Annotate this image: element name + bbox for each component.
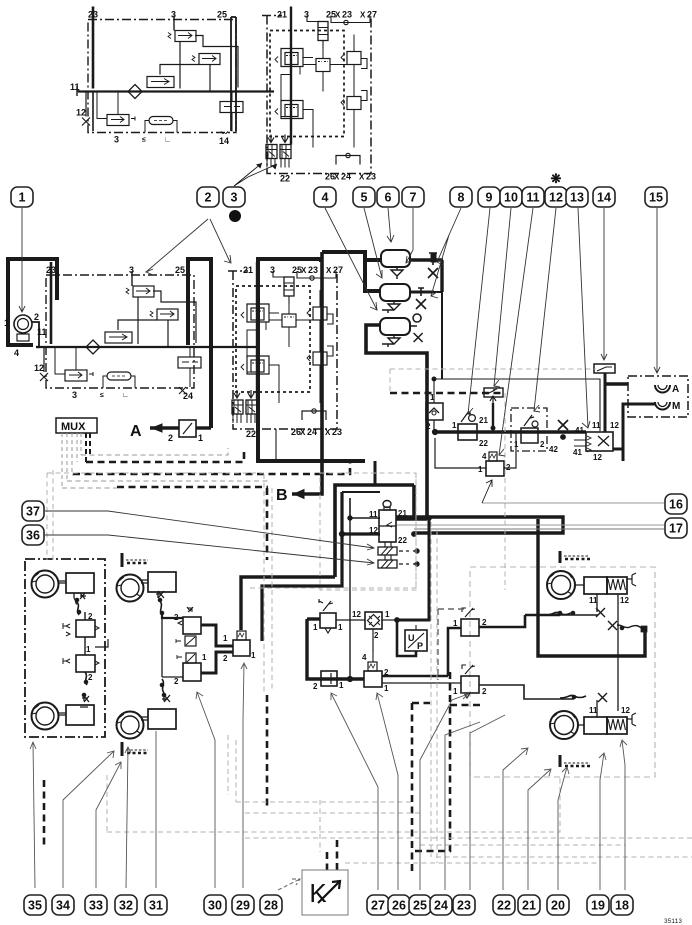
spring brake chamber top: [575, 573, 636, 594]
leader 9: [468, 208, 490, 415]
callout 26: [388, 895, 410, 915]
grey web verticals: [438, 609, 465, 680]
callout 31: [145, 895, 167, 915]
callout 36: [22, 525, 44, 545]
svg-text:1: 1: [4, 318, 9, 328]
line 11 thin: [350, 498, 380, 518]
svg-text:1: 1: [86, 645, 91, 654]
svg-text:21: 21: [243, 265, 253, 275]
svg-text:1: 1: [313, 623, 318, 632]
main supply section (core, reused for top-left inset): [34, 262, 232, 401]
svg-text:1: 1: [452, 421, 457, 430]
svg-text:❋: ❋: [551, 171, 562, 186]
hand brake main line: [435, 430, 586, 433]
svg-text:41: 41: [575, 426, 584, 435]
trailer/dryer section (core, reused for top-right inset): [228, 262, 343, 439]
callout 1: [11, 187, 33, 207]
svg-text:A: A: [130, 423, 142, 440]
MUX harness drops: [62, 433, 81, 488]
callout 16: [665, 494, 687, 514]
callout 9: [478, 187, 500, 207]
right lower valve assembly: [307, 346, 333, 403]
u-link with circle bottom: [302, 411, 326, 420]
svg-text:15: 15: [649, 191, 663, 205]
svg-text:42: 42: [549, 445, 558, 454]
left upper valve assembly: [241, 304, 269, 330]
wire 21 vertical: [256, 262, 258, 400]
svg-text:9: 9: [486, 191, 493, 205]
stub 12 with X: [40, 347, 48, 381]
sensor comb top: [560, 551, 590, 563]
inset label patch 14: [216, 134, 238, 146]
X 24 mark: [179, 387, 186, 394]
A/M coupling heads box: [628, 376, 688, 417]
svg-text:24: 24: [434, 899, 448, 913]
inset arrows pointing to solenoids (callout 2/3 leaders): [234, 163, 277, 186]
callout 4: [314, 187, 336, 207]
svg-text:≤: ≤: [100, 392, 104, 399]
svg-text:13: 13: [570, 191, 584, 205]
svg-text:11: 11: [37, 327, 47, 337]
inset bus entry: [77, 86, 80, 96]
svg-text:29: 29: [236, 899, 250, 913]
leader 25: [420, 693, 468, 890]
rear wheel top: [547, 571, 575, 599]
svg-text:36: 36: [26, 529, 40, 543]
svg-text:2: 2: [205, 191, 212, 205]
dash-dot border: [233, 271, 337, 429]
svg-text:P: P: [417, 641, 423, 651]
svg-text:1: 1: [339, 681, 344, 690]
hand brake valve: [452, 411, 488, 448]
svg-text:A: A: [672, 384, 679, 395]
leader 32: [125, 747, 131, 888]
callout 13: [566, 187, 588, 207]
solenoid pair: [232, 390, 257, 423]
leader 26: [376, 693, 398, 890]
leader 13: [578, 208, 590, 428]
svg-text:X: X: [326, 266, 332, 275]
line down right: [440, 260, 443, 292]
leader 27: [331, 693, 378, 890]
svg-text:23: 23: [457, 899, 471, 913]
svg-text:1: 1: [202, 653, 207, 662]
wire tank3 feed: [366, 325, 427, 519]
callout 34: [52, 895, 74, 915]
interconnect wires: [247, 313, 279, 403]
leader 28 to K: [278, 879, 300, 890]
port labels 23 3 25: [34, 265, 193, 401]
svg-text:1: 1: [338, 623, 343, 632]
svg-text:1: 1: [19, 191, 26, 205]
line 3 vertical: [131, 271, 133, 286]
middle solenoid box: [269, 304, 318, 347]
callout 15: [645, 187, 667, 207]
inset right column verticals: [231, 17, 236, 131]
svg-text:B: B: [276, 487, 288, 504]
svg-text:25: 25: [175, 265, 185, 275]
svg-text:2: 2: [313, 682, 318, 691]
svg-text:4: 4: [14, 348, 19, 358]
front relay valve: [233, 631, 250, 656]
callout 18: [611, 895, 633, 915]
rear group light dashed enclosure: [470, 567, 655, 777]
callout 6: [377, 187, 399, 207]
trailer coupling valve: [574, 432, 613, 452]
svg-text:1: 1: [385, 610, 390, 619]
svg-text:11: 11: [592, 421, 601, 430]
svg-text:∟: ∟: [122, 392, 129, 399]
svg-text:27: 27: [371, 899, 385, 913]
bleed X: [156, 591, 164, 598]
svg-text:2: 2: [174, 677, 179, 686]
callout 22: [493, 895, 515, 915]
callout 5: [353, 187, 375, 207]
svg-text:12: 12: [549, 191, 563, 205]
callout 8: [450, 187, 472, 207]
reservoir 3 test point: [410, 314, 423, 342]
air reservoir 1: [381, 250, 443, 279]
svg-text:3: 3: [72, 390, 77, 400]
A diagnostic box: [130, 420, 211, 443]
test couplings below valve: [378, 542, 419, 568]
lines to 16/17 circles: [397, 524, 664, 526]
svg-text:22: 22: [246, 429, 256, 439]
svg-text:4: 4: [482, 452, 487, 461]
brake chamber top: [66, 573, 94, 593]
filter diamond: [86, 340, 100, 354]
leader 21: [528, 769, 551, 890]
svg-text:8: 8: [458, 191, 465, 205]
callout 24: [430, 895, 452, 915]
svg-text:14: 14: [219, 136, 229, 146]
safety valve: [178, 347, 201, 368]
supply line to reservoirs: [322, 252, 381, 291]
svg-text:41: 41: [573, 448, 582, 457]
reservoir 2 drain cock: [416, 288, 426, 309]
dash-dot enclosure: [46, 275, 194, 388]
svg-text:35113: 35113: [664, 918, 682, 925]
svg-text:20: 20: [551, 899, 565, 913]
svg-text:2: 2: [168, 433, 173, 443]
thick links modulators to center valve: [201, 625, 233, 646]
leader 7: [406, 208, 413, 263]
line 23 vertical: [50, 262, 53, 344]
supply reservoir thick frame: [8, 259, 57, 345]
drain valve 3: [382, 335, 400, 347]
svg-text:U: U: [408, 633, 415, 643]
callout 7: [402, 187, 424, 207]
svg-text:32: 32: [119, 899, 133, 913]
bleed X bottom: [80, 696, 89, 707]
brake chamber: [148, 572, 176, 592]
grey harness horizontals: [62, 448, 268, 488]
svg-text:1: 1: [384, 684, 389, 693]
leader 10: [494, 208, 511, 387]
auxiliary relay valve 4 (right): [435, 432, 516, 476]
quick release valve: [321, 671, 337, 686]
unloader valve top: [126, 286, 196, 344]
air dryer cartridge: [273, 271, 294, 304]
callout 28: [260, 895, 282, 915]
svg-text:34: 34: [56, 899, 70, 913]
svg-text:4: 4: [362, 653, 367, 662]
callout 20: [547, 895, 569, 915]
callout 19: [587, 895, 609, 915]
svg-text:21: 21: [522, 899, 536, 913]
callout 2: [197, 187, 219, 207]
svg-text:1: 1: [453, 619, 458, 628]
gauge lozenge: [103, 372, 135, 388]
svg-text:7: 7: [410, 191, 417, 205]
speed sensor top: [122, 553, 148, 567]
callout 25: [409, 895, 431, 915]
svg-text:1: 1: [223, 634, 228, 643]
brake signal valve: [319, 599, 365, 633]
rear valve upper: [448, 608, 598, 676]
callout 17: [665, 518, 687, 538]
right upper valve assembly: [307, 290, 333, 352]
drain valve 2: [382, 301, 400, 313]
leader 24: [445, 722, 480, 890]
leader 19: [599, 753, 606, 890]
leader 8 fork: [431, 208, 461, 298]
leader 23: [470, 715, 505, 890]
right leg down: [398, 519, 429, 620]
air reservoir 3: [380, 318, 410, 347]
svg-text:37: 37: [26, 505, 40, 519]
front axle option group (dash-dot box): [25, 559, 105, 737]
thick feed staircase from reservoirs: [396, 517, 427, 520]
leader 31: [155, 731, 157, 888]
labels top: [243, 265, 343, 439]
drain valve 1: [391, 267, 403, 279]
svg-text:2: 2: [482, 687, 487, 696]
svg-text:2: 2: [88, 673, 93, 682]
trailer control test valve (dash-dot box): [511, 408, 558, 454]
callout 21: [518, 895, 540, 915]
inset labels 11/12: [70, 82, 80, 92]
leader 37: [45, 511, 374, 550]
svg-text:18: 18: [615, 899, 629, 913]
leader 15: [654, 208, 660, 373]
pilot below: [185, 636, 196, 646]
electronic control unit K: [302, 870, 348, 915]
service brake distribution: [307, 619, 364, 679]
U/P converter: [397, 620, 427, 656]
leader 33: [96, 762, 121, 888]
wheel FR top (tyre): [117, 575, 144, 602]
svg-text:16: 16: [669, 498, 683, 512]
svg-text:K: K: [309, 878, 327, 908]
wheel front-left top: [32, 571, 59, 598]
callout 35: [24, 895, 46, 915]
two-way relay valve body: [379, 501, 396, 543]
svg-text:12: 12: [610, 421, 619, 430]
svg-text:12: 12: [620, 596, 629, 605]
inset 23 wire lower continuation: [92, 91, 94, 131]
svg-text:2: 2: [34, 312, 39, 322]
callout 11: [522, 187, 544, 207]
svg-text:MUX: MUX: [61, 421, 86, 433]
thin verticals continuing down: [275, 429, 277, 461]
callout 30: [204, 895, 226, 915]
callout 33: [85, 895, 107, 915]
option dot: [229, 210, 241, 222]
leader 4: [325, 208, 377, 310]
callout 37: [22, 501, 44, 521]
svg-text:26: 26: [392, 899, 406, 913]
svg-text:5: 5: [361, 191, 368, 205]
leader 12: [534, 208, 556, 412]
left lower valve assembly: [241, 356, 269, 374]
ABS modulator FL2: [63, 637, 108, 672]
leader 36: [45, 535, 374, 565]
callout 29: [232, 895, 254, 915]
leader 5: [364, 208, 382, 278]
svg-text:22: 22: [479, 439, 488, 448]
ABS modulator FL1: [63, 612, 99, 637]
svg-text:12: 12: [34, 363, 44, 373]
governor valve: [105, 320, 157, 343]
spring release hose: [608, 621, 641, 630]
svg-text:17: 17: [669, 522, 683, 536]
leader 22: [503, 748, 528, 890]
low pressure switch: [55, 347, 93, 381]
thin service line y379: [434, 379, 600, 431]
top-left inset: reuse core groups shifted up: [76, 7, 274, 146]
svg-text:1: 1: [478, 465, 483, 474]
rear wheel bottom: [550, 711, 578, 739]
leader 30: [196, 692, 215, 888]
svg-text:12: 12: [621, 706, 630, 715]
X mark on line: [558, 420, 568, 430]
leader 11: [499, 208, 533, 456]
svg-text:12: 12: [352, 610, 361, 619]
svg-text:M: M: [672, 401, 680, 412]
svg-text:X: X: [301, 266, 307, 275]
svg-text:23: 23: [308, 265, 318, 275]
svg-text:23: 23: [332, 427, 342, 437]
dotted inner border: [236, 286, 310, 392]
supply to A head: [605, 382, 628, 385]
callout 23: [453, 895, 475, 915]
svg-text:31: 31: [149, 899, 163, 913]
callout 27: [367, 895, 389, 915]
hose to modulator: [77, 602, 79, 615]
leader 29: [241, 663, 247, 888]
ABS modulator FR2: [177, 653, 201, 681]
svg-text:21: 21: [479, 416, 488, 425]
svg-text:6: 6: [385, 191, 392, 205]
leader 18: [620, 740, 627, 890]
bleed screw X top: [74, 593, 86, 604]
callout 10: [500, 187, 522, 207]
bottom service hose: [560, 695, 586, 698]
pressure regulator: [150, 309, 178, 347]
leader 14: [601, 208, 607, 360]
leader 6: [387, 208, 394, 242]
svg-text:10: 10: [504, 191, 518, 205]
sensor comb bottom: [560, 755, 590, 767]
svg-text:1: 1: [453, 687, 458, 696]
hose to bottom chamber: [85, 672, 87, 685]
wire center section to staircase: [374, 461, 377, 485]
svg-text:27: 27: [333, 265, 343, 275]
thick rear axle supply: [538, 519, 645, 656]
thick to right: [381, 678, 384, 681]
svg-text:19: 19: [591, 899, 605, 913]
svg-text:X: X: [325, 428, 331, 437]
thick verticals down to front modulator valves: [241, 577, 335, 630]
wheel front-left bottom: [32, 703, 59, 730]
svg-text:11: 11: [369, 510, 378, 519]
B-line thick vertical: [292, 252, 322, 494]
rear valve lower: [453, 665, 574, 699]
port 21 main out: [396, 517, 563, 533]
svg-text:2: 2: [223, 654, 228, 663]
sensor box 14: [594, 364, 615, 432]
MUX box: [56, 418, 97, 433]
svg-text:1: 1: [251, 651, 256, 660]
svg-text:3: 3: [231, 191, 238, 205]
svg-text:35: 35: [28, 899, 42, 913]
grey web horizontals: [47, 369, 692, 863]
speed sensor bottom: [122, 742, 148, 756]
air reservoir 2: [380, 284, 442, 379]
svg-text:2: 2: [540, 440, 545, 449]
svg-text:X: X: [300, 428, 306, 437]
relay valve 4: [364, 652, 382, 687]
reservoir 1 drain cock: [428, 253, 438, 278]
svg-text:33: 33: [89, 899, 103, 913]
callout 12: [545, 187, 567, 207]
svg-text:12: 12: [369, 526, 378, 535]
svg-text:24: 24: [307, 427, 317, 437]
svg-text:2: 2: [426, 422, 431, 431]
svg-text:1: 1: [198, 433, 203, 443]
callout 14: [593, 187, 615, 207]
gauge link box: [484, 388, 503, 431]
service port hose top: [545, 612, 571, 615]
svg-text:14: 14: [597, 191, 611, 205]
svg-text:12: 12: [593, 453, 602, 462]
svg-text:11: 11: [526, 191, 539, 205]
twin thin lines to right valves: [382, 675, 448, 678]
port block 25 (tall thick U): [188, 259, 211, 428]
main-only thick frame of center section: [232, 252, 365, 504]
supply to M head: [613, 404, 656, 449]
wire 25-23-27 top links: [297, 271, 336, 278]
svg-text:2: 2: [482, 618, 487, 627]
svg-text:22: 22: [497, 899, 511, 913]
callout 3: [223, 187, 245, 207]
wheel FR bottom: [117, 712, 144, 739]
callout 32: [115, 895, 137, 915]
pressure protection box: [426, 393, 443, 431]
compressor pump: [14, 315, 40, 347]
svg-text:1: 1: [430, 393, 435, 402]
ABS modulator FR1: [162, 607, 201, 646]
double check valve box: [365, 612, 399, 652]
main-only extras: reservoir frame + pump + tall port block + A line: [4, 259, 211, 443]
svg-text:4: 4: [322, 191, 329, 205]
svg-text:25: 25: [413, 899, 427, 913]
leader 2 fork: [146, 219, 208, 275]
leader 35: [30, 742, 36, 888]
svg-text:28: 28: [264, 899, 278, 913]
svg-text:2: 2: [374, 631, 379, 640]
